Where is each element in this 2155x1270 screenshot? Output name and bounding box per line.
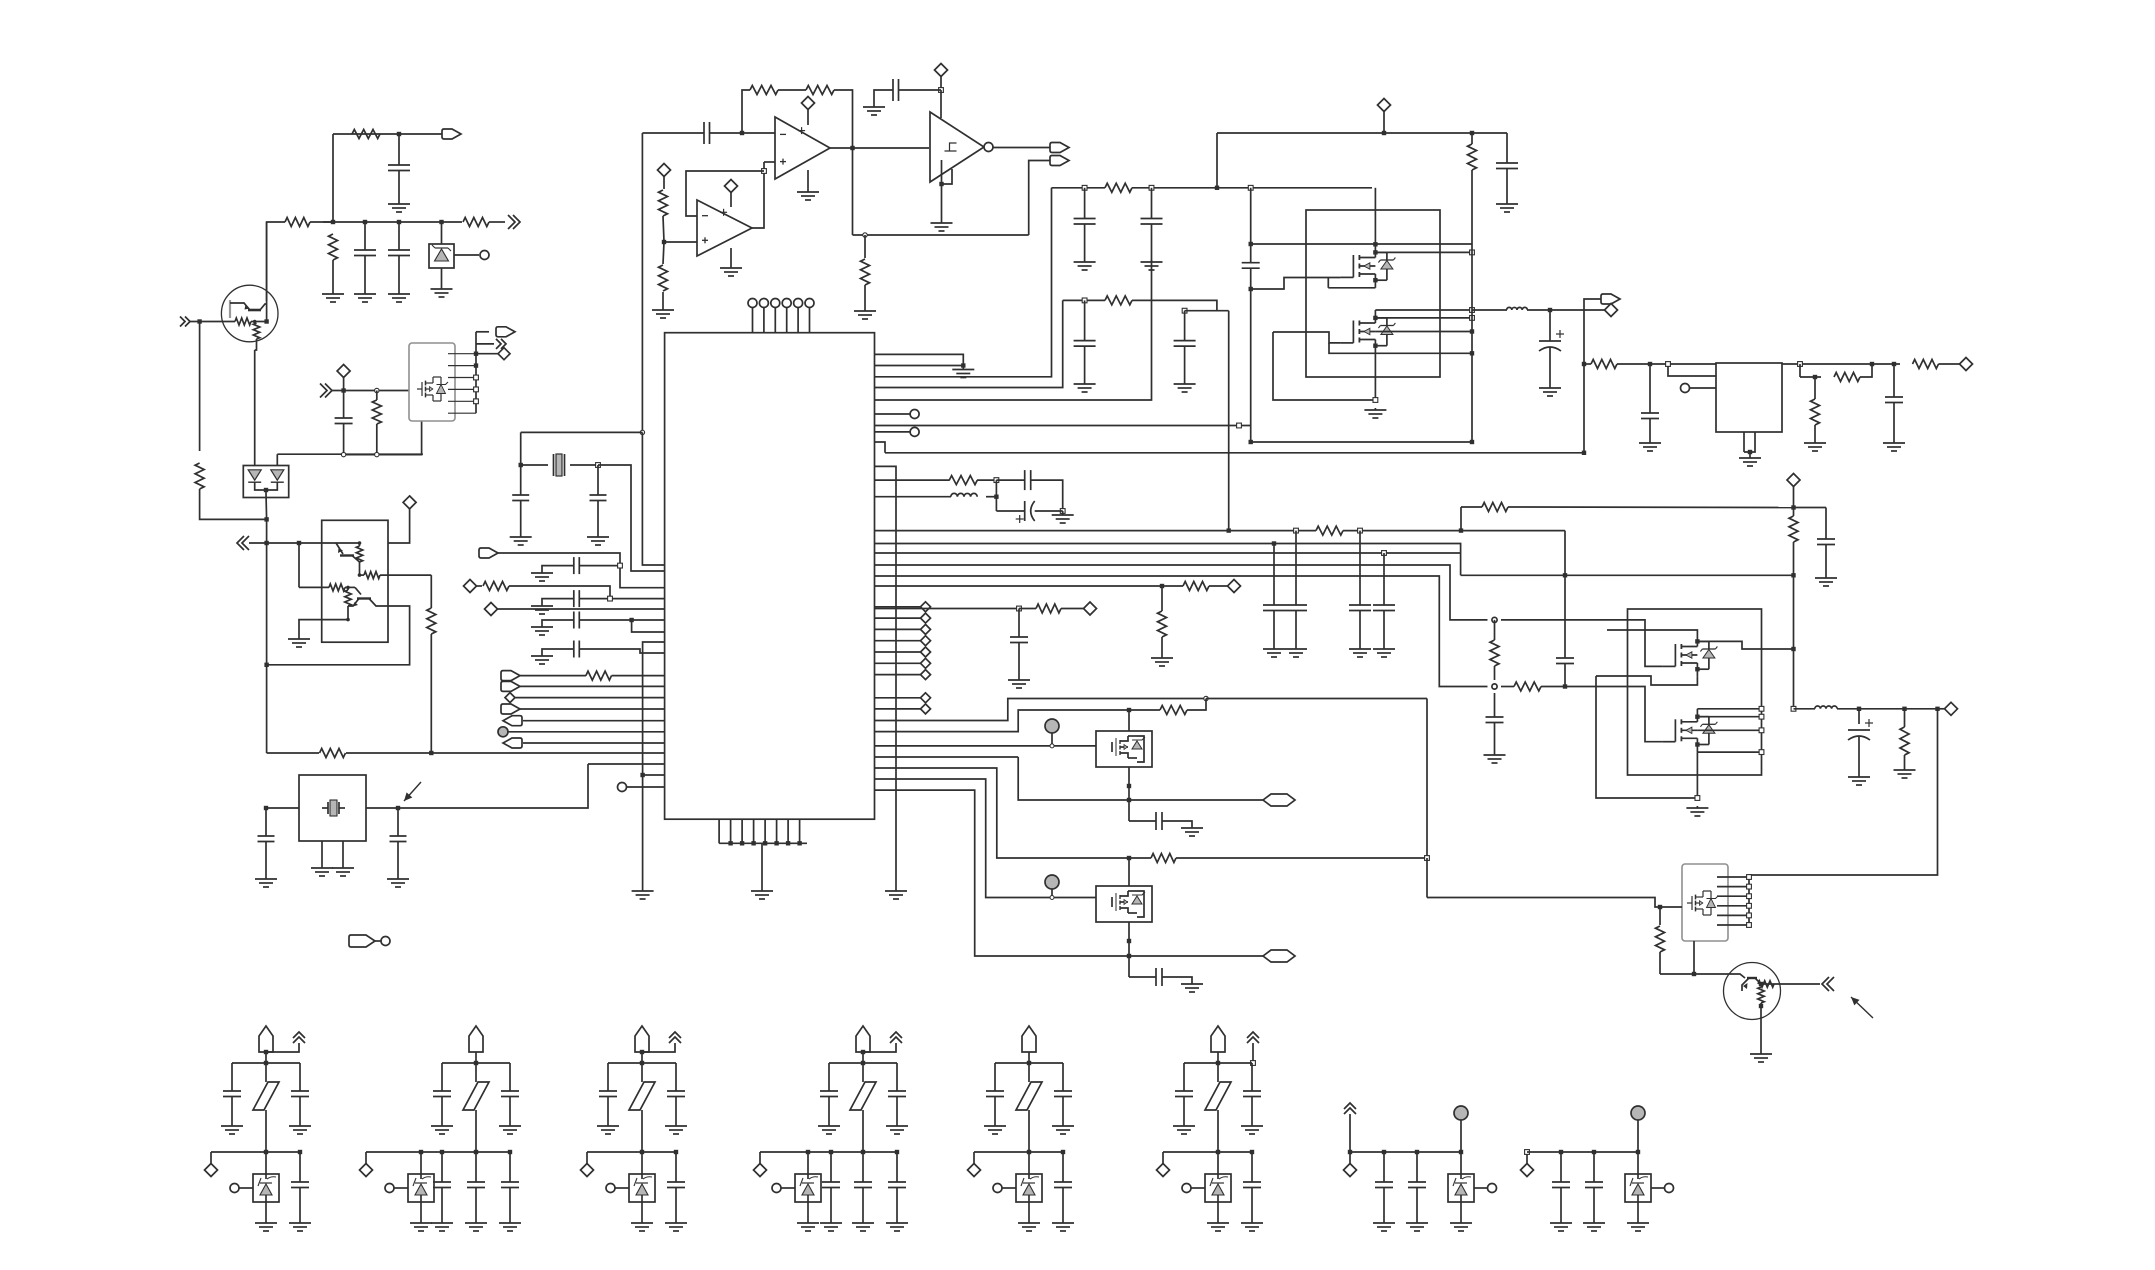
junction y300 x1084 (1082, 298, 1087, 303)
J6 diamond left (1162, 1152, 1164, 1164)
ground G25 (962, 366, 964, 370)
resistor R1 (352, 130, 380, 139)
capacitor C31 (1825, 508, 1827, 540)
wire U9 gate entry M3 (1501, 619, 1628, 621)
J6 circle term (1182, 1184, 1191, 1193)
wire input to Q1 (190, 321, 235, 323)
capacitor C19 (1151, 188, 1153, 219)
wire between R13 R14 (778, 89, 806, 91)
junction x1250 y244 (1249, 242, 1253, 246)
junction supply a (994, 478, 999, 483)
J1 ground b1 (299, 1221, 301, 1223)
J8 tvs diode (1625, 1174, 1651, 1202)
wire M2 diode-top (1375, 317, 1472, 319)
junction VD12 (1791, 505, 1795, 509)
flag in y686 (501, 681, 520, 691)
ground G46 (1494, 753, 1496, 755)
ground G31 (1151, 256, 1153, 262)
J5 diamond left (973, 1152, 975, 1164)
junction gate U10 (1658, 905, 1662, 909)
ground G42 (1295, 643, 1297, 649)
net dot gray y731 (498, 727, 508, 737)
wire IC pin y400 riser (875, 260, 1152, 400)
J4 ground b1 (830, 1221, 832, 1223)
M2 source jog (1329, 343, 1375, 353)
J4 ground tvs (807, 1221, 809, 1223)
J3 connector bullet (635, 1026, 649, 1052)
capacitor C10 (573, 590, 575, 607)
bus wire 2 (875, 544, 1461, 576)
J2 ground b2 (475, 1221, 477, 1223)
U4 feedback loop (752, 162, 764, 228)
wire R2 to branch (323, 221, 333, 223)
ground G40 (1749, 456, 1751, 458)
U10 pin stubs (1717, 876, 1749, 878)
J4 wire bullet down (862, 1052, 864, 1063)
junction M1 drain (1373, 242, 1377, 246)
level shifter box Q2/Q3 (322, 520, 388, 642)
ground G39 (1893, 441, 1895, 443)
wire fb down (1799, 364, 1801, 377)
J8 ground 2 (1593, 1221, 1595, 1223)
J3 power arrow up (669, 1032, 681, 1043)
wire Q3 emitter to gnd (322, 619, 348, 621)
crystal X1 (521, 464, 548, 466)
wire x1228 riser (1228, 311, 1230, 532)
J1 mid bar (211, 1151, 300, 1153)
power diamond col2 (875, 617, 921, 619)
J1 ground tvs (265, 1221, 267, 1223)
capacitor C5 input (703, 122, 705, 144)
M3 gate route (1628, 620, 1663, 667)
J6 mid bar (1163, 1151, 1252, 1153)
J6 capacitor right top (1251, 1063, 1253, 1091)
J4 tvs diode (795, 1174, 821, 1202)
wire VD12 stub (1793, 487, 1795, 508)
capacitor C9 (573, 557, 575, 574)
M3 diode-top rail (1697, 641, 1793, 649)
mosfet Q5 in U10 (1687, 902, 1692, 904)
bus wire 5 (875, 576, 1488, 687)
mosfet M1 (1340, 276, 1353, 278)
mosfet M4 (1662, 741, 1675, 743)
J1 ground lt (231, 1124, 233, 1126)
J6 capacitor left top (1183, 1063, 1185, 1091)
junction R34 top (1492, 617, 1497, 622)
J3 top cap bar (608, 1062, 676, 1064)
J2 mid bar (366, 1151, 510, 1153)
circle terminal T4 (875, 431, 911, 433)
J2 capacitor bottom 3 (508, 1150, 512, 1154)
resistor R7 to right (364, 572, 380, 579)
resistor R3 to output (463, 218, 489, 227)
ground G43 (1359, 643, 1361, 649)
J7 tvs diode (1448, 1174, 1474, 1202)
junction crystal right (596, 463, 601, 468)
J3 wire bullet down (641, 1052, 643, 1063)
wire x1427 down (1426, 699, 1428, 859)
ground G29 (1018, 674, 1020, 680)
J5 wire bullet down (1028, 1052, 1030, 1063)
wire through driver B (1128, 858, 1130, 886)
J3 circle term (606, 1184, 615, 1193)
wire R7 down to R10 (430, 575, 432, 608)
wire out B to flag (1129, 955, 1263, 957)
wire x1584 down (1583, 310, 1585, 453)
J5 ground rt (1062, 1124, 1064, 1126)
J3 mid bar (587, 1151, 676, 1153)
junction x1793 y575 (1791, 573, 1795, 577)
J8 cap 1 (1560, 1152, 1562, 1182)
M1 source return (1328, 287, 1375, 289)
wire elbow y620-632 (632, 620, 665, 632)
J5 ferrite bead FB (1028, 1063, 1030, 1082)
junction out B (1127, 954, 1131, 958)
phase junctions buck2 (1759, 706, 1764, 711)
C12 gnd elbow (542, 649, 574, 653)
main rail y222 (310, 221, 462, 223)
J2 top cap bar (442, 1062, 510, 1064)
U10 pin bus bar (1748, 875, 1750, 925)
chevron out >> (508, 215, 520, 229)
junction rail x1384 (1382, 131, 1386, 135)
wire netA x642 (opamp input col) (641, 133, 643, 432)
U2 pin bus bar (475, 332, 477, 413)
wire IC y768 to B (875, 768, 1130, 858)
chevron out << left (237, 536, 249, 550)
key connector (349, 935, 375, 947)
J1 ground rt (299, 1124, 301, 1126)
wire R10 down to y753 (430, 634, 432, 753)
capacitor C15 (1024, 470, 1026, 490)
diode D2a (248, 470, 261, 480)
IC top pin stubs and circles (752, 307, 754, 333)
power diamond y697 (505, 693, 515, 703)
ground G26 (895, 885, 897, 891)
J4 diamond left (759, 1152, 761, 1164)
U2 pin stubs (448, 353, 476, 355)
J5 capacitor bottom 1 (1061, 1150, 1065, 1154)
resistor R13 (750, 86, 778, 95)
resistor R25 (1105, 296, 1132, 305)
wire xtal-en y642 (643, 642, 665, 885)
wire y586 (875, 585, 1163, 587)
ground G6 (298, 633, 300, 639)
wire Q2 to R7 (359, 562, 361, 575)
IC bottom pin comb (718, 819, 720, 843)
resistor R17 divider bottom (663, 242, 664, 264)
crystal top wire (521, 431, 643, 433)
wire input node down-left (199, 322, 201, 451)
wire U5 out (993, 147, 1052, 149)
wire feedback top (742, 90, 750, 133)
J2 capacitor bottom 1 (440, 1150, 444, 1154)
wire U5 out2 (1029, 161, 1052, 236)
power diamond VD1 (403, 496, 416, 509)
transistor Q3 lower (355, 587, 361, 594)
resistor R24 (1105, 183, 1132, 192)
power diamond VD6 (485, 603, 498, 616)
resistor R31 on bus1 (1316, 526, 1343, 535)
junction X2 out (396, 806, 400, 810)
capacitor C4 (343, 391, 345, 419)
X2 pins bottom (321, 841, 323, 866)
wire netA to IC pin y565 (642, 432, 664, 565)
J4 capacitor left top (828, 1063, 830, 1091)
resistor R14 (806, 86, 834, 95)
buck1 box U7 (1306, 210, 1440, 377)
wire R1 to C1 (398, 134, 400, 165)
ground G19 (541, 653, 543, 656)
power diamond U3 (802, 97, 815, 110)
resistor R37 (1659, 907, 1661, 925)
wire y300 bus (1063, 299, 1105, 301)
ground G12 (941, 217, 943, 223)
J1 ferrite bead FB (265, 1063, 267, 1082)
J4 ground b2 (862, 1221, 864, 1223)
ground G16 (541, 570, 543, 573)
junction rail-x333 (331, 220, 335, 224)
power diamond col5 (875, 651, 921, 653)
capacitor C28 (1295, 531, 1297, 605)
wire out to schmitt (865, 147, 929, 149)
J4 capacitor bottom 1 (829, 1150, 833, 1154)
U9 bottom stem (1696, 752, 1698, 798)
C11 gnd elbow (542, 620, 574, 624)
resistor R30 vert (1813, 375, 1817, 379)
J4 ferrite bead FB (862, 1063, 864, 1082)
wire y543 (249, 542, 322, 544)
power diamond VD5 (464, 580, 477, 593)
junction input node (197, 319, 201, 323)
J7 net dot gray (1454, 1106, 1468, 1120)
wire y553 (498, 553, 665, 588)
resistor R15 pulldown (864, 235, 866, 258)
power diamond VD2 (337, 365, 350, 378)
hex flag A (1263, 794, 1295, 806)
J1 capacitor right top (299, 1063, 301, 1091)
J6 tvs diode (1205, 1174, 1231, 1202)
J1 capacitor left top (231, 1063, 233, 1091)
capacitor C23 series (1242, 262, 1260, 264)
ground G37 (1649, 441, 1651, 443)
power diamond col1 (875, 606, 921, 608)
wire IC y720 riser (875, 699, 1207, 721)
J4 ground b3 (896, 1221, 898, 1223)
ground G11 (873, 101, 875, 107)
wire Q1 collector up (266, 222, 268, 322)
wire top into diode box b (276, 454, 278, 466)
junction y187 xC18 (1082, 185, 1087, 190)
power diamond VD3 (658, 164, 671, 177)
junction at R1 right (397, 132, 401, 136)
junction x1427 y858 (1425, 856, 1430, 861)
junction y543-x267 (264, 541, 268, 545)
wire M4 source row (1697, 751, 1761, 753)
junction x1472 y442 (1470, 440, 1474, 444)
wire x267 down segment2 (266, 543, 268, 665)
junction y586 (1160, 584, 1164, 588)
capacitor C13 (258, 835, 275, 837)
flag VOUT1 (1584, 299, 1603, 310)
chevron << Q6 (1822, 977, 1834, 991)
J4 power arrow up (890, 1032, 902, 1043)
U7 gnd loop left (1273, 332, 1375, 400)
load switch U10 gray box (1682, 864, 1728, 941)
resistor R16 divider top (663, 177, 665, 190)
junction y543-x299 (297, 541, 301, 545)
mosfet M3 (1662, 665, 1675, 667)
junction y698 x1206 (1204, 696, 1208, 700)
J4 ground lt (828, 1124, 830, 1126)
wire gate U10 (1427, 898, 1682, 908)
wire y425 long (875, 425, 1251, 427)
junction y187 x1250 (1248, 185, 1253, 190)
wire R37 to Q6 (1660, 973, 1723, 975)
wire y665 (267, 621, 410, 665)
junction R12 node (375, 388, 379, 392)
wire x1427 to gate U10 (1426, 858, 1428, 898)
J5 top cap bar (995, 1062, 1063, 1064)
capacitor C12 (573, 641, 575, 658)
flag OUT U2 (476, 331, 489, 333)
junction feedback node (740, 131, 744, 135)
wire vcc stub (940, 90, 942, 118)
junction out A (1127, 798, 1131, 802)
J5 ground tvs (1028, 1221, 1030, 1223)
J6 connector bullet (1211, 1026, 1225, 1052)
wire bottom y454 (344, 421, 422, 455)
wire y310 stub (1185, 310, 1217, 312)
M2 gate route (1273, 332, 1340, 343)
J8 diamond (1526, 1152, 1528, 1164)
wire R24 right (1132, 187, 1372, 189)
wire C6 to gnd (874, 90, 893, 101)
chevron out U2 (476, 343, 494, 345)
C10 gnd elbow (542, 599, 574, 603)
bus wire 4 (875, 565, 1488, 620)
wire y686 gate (1565, 686, 1628, 688)
J1 wire bullet down (265, 1052, 267, 1063)
junction y608 (1017, 606, 1022, 611)
junction U9 y649 (1791, 647, 1795, 651)
wire rail riser to R1 (332, 134, 334, 222)
power diamond col4 (875, 640, 921, 642)
resistor R26 vert (1471, 133, 1473, 144)
resistor R33 vert (1793, 508, 1795, 517)
crystal symbol in X2 (322, 807, 328, 809)
resistor R39 (1129, 857, 1151, 859)
wire crystal left node (520, 432, 522, 465)
J2 ground b1 (441, 1221, 443, 1223)
wire IC pin y480 (875, 479, 950, 481)
resistor R8 (Q3 base) (299, 586, 329, 588)
junction rail-x441 (439, 220, 443, 224)
junction U8 out (1870, 362, 1874, 366)
wire out rail A (1018, 757, 1129, 800)
U8 box (1716, 363, 1782, 432)
wire x267 down segment3 (266, 665, 268, 753)
J2 circle term (385, 1184, 394, 1193)
flag in y675 (501, 671, 520, 681)
junction mid node (1492, 684, 1497, 689)
IC U6 body (665, 333, 875, 820)
J2 capacitor bottom 2 (475, 1152, 477, 1182)
wire Q6 base out (1774, 983, 1820, 985)
junction bus2 (1272, 541, 1276, 545)
J7 diamond (1349, 1152, 1351, 1164)
capacitor C27 (1273, 544, 1275, 606)
junction X2 left (264, 806, 268, 810)
junction x1937 (1935, 707, 1939, 711)
ground G41 (1273, 643, 1275, 649)
transistor Q6 (pre-biased, in circle) (1724, 963, 1781, 1020)
J4 capacitor bottom 3 (895, 1150, 899, 1154)
diode D2b (271, 470, 284, 480)
wire y753 long (267, 752, 319, 754)
J2 diamond left (365, 1152, 367, 1164)
junction U5 vcc (939, 88, 944, 93)
wire Q3 base bias bottom (347, 606, 349, 620)
ground G4 (398, 288, 400, 294)
flag in y743 (503, 738, 522, 748)
J5 mid bar (974, 1151, 1063, 1153)
resistor R2 on rail left (285, 218, 310, 227)
wire R25 right (1132, 300, 1229, 310)
wire junction down x299 (298, 543, 300, 587)
wire U3 plus input (764, 161, 775, 163)
J2 capacitor left top (441, 1063, 443, 1091)
ground G8 (864, 305, 866, 311)
wire x1250 buck left (1250, 188, 1252, 263)
U8 out wire (1782, 363, 1872, 365)
junction rail-x399 (397, 220, 401, 224)
junction L3 out b (1902, 707, 1906, 711)
J6 ground lt (1183, 1124, 1185, 1126)
ground G15 (597, 531, 599, 537)
J2 tvs junction (419, 1150, 423, 1154)
chevron input >> U2 (320, 384, 332, 398)
junction x1584 y452 (1582, 451, 1586, 455)
wire VD9 stub (1383, 112, 1385, 134)
flag input y553 (479, 548, 498, 558)
power diamond col9 (875, 708, 921, 710)
M4 gate route (1628, 687, 1663, 742)
capacitor C20 (1084, 300, 1086, 340)
wire diode common down (265, 493, 268, 519)
junction L2 out (1548, 308, 1552, 312)
J3 ferrite bead FB (641, 1063, 643, 1082)
junction x1250 y442 (1249, 440, 1253, 444)
annotation arrow Q6 (1851, 997, 1873, 1018)
J2 ground b3 (509, 1221, 511, 1223)
ground G5 (441, 283, 443, 289)
ground G50 (1760, 1048, 1762, 1054)
resistor R22 vert (1161, 586, 1163, 611)
capacitor C7 (520, 465, 522, 495)
capacitor C11 (573, 612, 575, 629)
ground G14 (520, 531, 522, 537)
power diamond VD4 (935, 64, 948, 77)
J1 power arrow up (293, 1032, 305, 1043)
capacitor C34 polarized (1858, 709, 1860, 724)
wire gate B (875, 779, 1097, 898)
resistor R21 (1183, 582, 1209, 591)
power diamond VD11 (1960, 358, 1973, 371)
op-amp U3 (775, 117, 830, 179)
U7 bottom stem (1374, 353, 1376, 400)
J7 ground tvs (1460, 1221, 1462, 1223)
